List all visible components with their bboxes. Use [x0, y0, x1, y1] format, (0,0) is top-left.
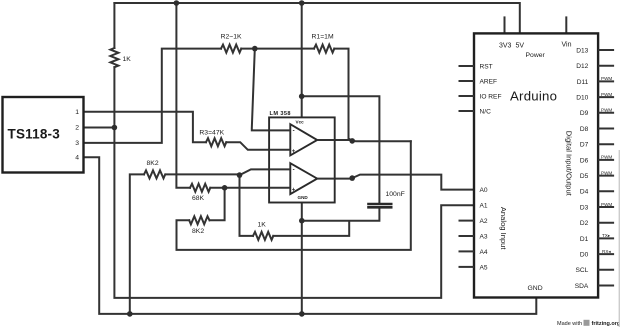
wire junction B down to 8K2 second — [210, 188, 225, 221]
pin D7 stub — [598, 143, 614, 145]
svg-text:Vin: Vin — [562, 42, 572, 49]
svg-text:Arduino: Arduino — [510, 89, 557, 104]
wire op-amp GND pin down to ground rail — [301, 203, 303, 314]
wire Arduino 3V3 stub — [504, 17, 506, 33]
svg-text:A4: A4 — [480, 249, 488, 256]
svg-text:3: 3 — [75, 140, 79, 147]
svg-text:A2: A2 — [480, 218, 488, 225]
svg-text:SCL: SCL — [575, 267, 588, 274]
svg-text:fritzing.org: fritzing.org — [592, 321, 620, 327]
node R2-R1-op1inv — [252, 46, 258, 52]
pin A3 stub — [459, 235, 475, 237]
wire junction A down to 1K second — [240, 175, 254, 236]
svg-text:GND: GND — [298, 195, 309, 200]
wire 8K2 second left down and to op1 output feedback — [177, 141, 411, 250]
svg-text:1K: 1K — [258, 222, 267, 229]
pin D12 stub — [598, 65, 614, 67]
svg-text:RST: RST — [480, 63, 493, 70]
svg-text:TX▸: TX▸ — [602, 233, 611, 238]
node rail-Vcc — [299, 0, 305, 6]
svg-text:PWM: PWM — [601, 76, 612, 81]
svg-text:D1: D1 — [580, 236, 589, 243]
wire 5V rail — [114, 3, 519, 33]
wire op2 output stub — [335, 178, 353, 180]
svg-text:D8: D8 — [580, 126, 589, 133]
resistor R1=1M — [314, 45, 334, 53]
wire 5V to 68K — [176, 3, 190, 188]
svg-text:R1=1M: R1=1M — [312, 33, 334, 40]
wire ground node to capacitor bottom — [302, 207, 380, 220]
pin D10 stub — [598, 96, 614, 98]
svg-text:1K: 1K — [123, 56, 132, 63]
svg-text:Analog Input: Analog Input — [499, 207, 508, 251]
pin IO REF stub — [459, 95, 475, 97]
svg-text:A0: A0 — [480, 187, 488, 194]
pin D5 stub — [598, 175, 614, 177]
svg-text:LM 358: LM 358 — [270, 111, 291, 117]
wire op1 input stubs — [269, 130, 335, 149]
svg-text:+: + — [292, 187, 296, 193]
svg-text:D7: D7 — [580, 142, 589, 149]
pin D13 stub — [598, 49, 614, 51]
svg-text:TS118-3: TS118-3 — [8, 127, 61, 142]
svg-text:D5: D5 — [580, 173, 589, 180]
node GND-8K2 — [127, 311, 133, 317]
node pin2-A1 — [112, 125, 118, 131]
node junction B 68K — [222, 185, 228, 191]
resistor 68K — [190, 184, 210, 192]
pin SDA stub — [598, 285, 614, 287]
resistor 1K (second) — [253, 232, 273, 240]
pin D9 stub — [598, 112, 614, 114]
wire R1 right down to op1 output — [334, 49, 352, 141]
wire Vcc node: rail down to op-amp Vcc pin — [301, 3, 303, 117]
node Vcc-cap — [299, 94, 305, 100]
svg-text:PWM: PWM — [601, 155, 612, 160]
node GND-cap-1K — [299, 218, 305, 224]
wire 68K to op2 non-inverting input — [210, 187, 290, 189]
svg-text:R3=47K: R3=47K — [199, 130, 224, 137]
op-amp U1 LM358 — [269, 111, 335, 203]
Arduino left pin stubs — [459, 66, 475, 267]
wire op2 input stubs — [269, 169, 335, 187]
svg-text:D4: D4 — [580, 189, 589, 196]
node op1 output — [349, 138, 355, 144]
svg-text:D2: D2 — [580, 220, 589, 227]
pin D6 stub — [598, 159, 614, 161]
svg-text:3V3: 3V3 — [499, 42, 512, 49]
node GND-opamp — [299, 311, 305, 317]
component Arduino board — [474, 33, 598, 297]
pin RST stub — [459, 65, 475, 67]
svg-text:R2~1K: R2~1K — [221, 33, 242, 40]
svg-text:4: 4 — [75, 155, 79, 162]
resistor 8K2 (first) — [144, 170, 165, 178]
resistor 1K (vertical) — [110, 48, 118, 67]
node junction A 8K2 — [237, 172, 243, 178]
op-amp A triangle — [290, 124, 317, 155]
svg-text:D12: D12 — [576, 63, 588, 70]
svg-text:SDA: SDA — [575, 283, 589, 290]
pin D1 stub — [598, 237, 614, 239]
svg-text:RX◂: RX◂ — [602, 249, 611, 254]
right edge border — [619, 150, 620, 327]
svg-text:100nF: 100nF — [386, 191, 405, 198]
svg-text:Vcc: Vcc — [296, 119, 305, 124]
wire 1K bottom to A1 line — [114, 67, 474, 298]
svg-text:A3: A3 — [480, 233, 488, 240]
wire 8K2 first right to junction A — [166, 173, 240, 175]
pin D3 stub — [598, 206, 614, 208]
svg-text:PWM: PWM — [601, 202, 612, 207]
svg-text:1: 1 — [75, 109, 79, 116]
pin A2 stub — [459, 220, 475, 222]
svg-text:5V: 5V — [516, 42, 525, 49]
svg-text:D6: D6 — [580, 157, 589, 164]
svg-text:Made with: Made with — [557, 321, 582, 327]
svg-text:D11: D11 — [577, 79, 589, 86]
wire R2 node down to op1 inverting input — [252, 49, 290, 131]
pin D2 stub — [598, 222, 614, 224]
svg-text:D0: D0 — [580, 252, 589, 259]
svg-text:Digital Input/Output: Digital Input/Output — [564, 131, 573, 197]
svg-text:-: - — [293, 129, 295, 135]
resistor 8K2 (second) — [189, 216, 209, 224]
pin D11 stub — [598, 80, 614, 82]
pin D8 stub — [598, 128, 614, 130]
pin D4 stub — [598, 190, 614, 192]
watermark made with fritzing.org — [557, 320, 620, 327]
Arduino right pin labels — [575, 47, 589, 290]
wire Arduino Vin stub — [565, 17, 567, 33]
wire op1 output to feedback riser — [352, 140, 411, 142]
wire TS pin1 to R3 — [83, 112, 206, 142]
component TS118-3 — [3, 97, 84, 173]
svg-text:D13: D13 — [576, 47, 588, 54]
wire junction A to op2 inverting input — [240, 169, 291, 175]
resistor R2~1K — [221, 45, 241, 53]
PWM tags — [601, 76, 612, 254]
svg-text:IO REF: IO REF — [480, 93, 502, 100]
pin SCL stub — [598, 269, 614, 271]
svg-text:2: 2 — [75, 125, 79, 132]
svg-text:AREF: AREF — [480, 78, 498, 85]
svg-text:GND: GND — [528, 285, 543, 292]
pin A4 stub — [459, 250, 475, 252]
wire node to R1 — [302, 48, 314, 50]
svg-text:D9: D9 — [580, 110, 589, 117]
svg-text:A5: A5 — [480, 264, 488, 271]
svg-text:A1: A1 — [480, 203, 488, 210]
svg-text:8K2: 8K2 — [192, 228, 204, 235]
pin D0 stub — [598, 253, 614, 255]
wire capacitor top up and to Vcc node — [302, 96, 380, 204]
svg-text:N/C: N/C — [480, 108, 492, 115]
Arduino right pin stubs — [598, 50, 614, 286]
pin N/C stub — [459, 110, 475, 112]
svg-text:PWM: PWM — [601, 170, 612, 175]
wire TS pin2 to junction — [83, 127, 114, 129]
wire TS pin3 up to R2 — [83, 49, 221, 143]
wire op1 output stub — [335, 139, 353, 141]
svg-text:8K2: 8K2 — [147, 160, 159, 167]
op-amp B triangle — [290, 163, 317, 194]
node rail-68K — [174, 0, 180, 6]
svg-text:PWM: PWM — [601, 108, 612, 113]
wire 8K2 first: GND up to resistor — [130, 174, 144, 314]
wire 1K second right up to ground line — [273, 221, 349, 236]
svg-text:68K: 68K — [192, 195, 205, 202]
svg-text:-: - — [293, 168, 295, 174]
resistor R3=47K — [206, 138, 226, 146]
svg-text:D3: D3 — [580, 204, 589, 211]
wire 1K top lead from rail — [113, 3, 115, 48]
node op2 output — [349, 175, 355, 181]
wire TS pin4 to ground rail and Arduino GND — [83, 157, 536, 314]
svg-text:+: + — [292, 149, 296, 155]
wire R3 to op-amp non-inverting input — [226, 142, 290, 150]
wire op2 output to Arduino A0 — [352, 175, 474, 190]
svg-text:PWM: PWM — [601, 92, 612, 97]
capacitor C1 100nF — [367, 204, 392, 207]
svg-text:Power: Power — [526, 52, 546, 59]
pin A5 stub — [459, 266, 475, 268]
svg-text:D10: D10 — [576, 95, 588, 102]
pin AREF stub — [459, 80, 475, 82]
Arduino left pin labels — [480, 63, 502, 271]
wire R2 right to node — [241, 48, 301, 50]
